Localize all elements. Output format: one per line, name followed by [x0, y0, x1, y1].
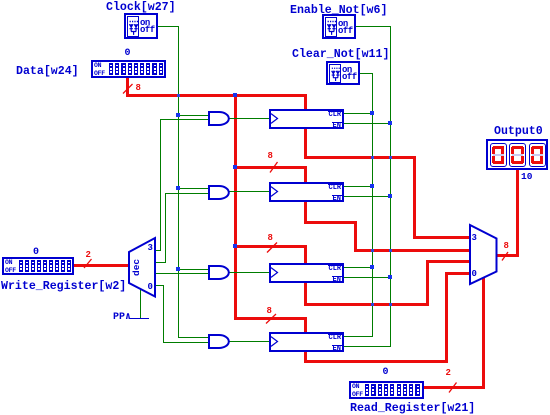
wire clock to gate3: [178, 269, 209, 270]
wire branch to reg2: [234, 166, 307, 169]
digit 3 segments: [532, 146, 543, 149]
wire decoder enable: [140, 289, 141, 318]
wire reg1 Q down: [304, 128, 307, 159]
label width 8 data: [136, 84, 141, 93]
switch Clear_Not[w11]: [326, 61, 360, 85]
digit 2 segments: [512, 146, 523, 149]
wire mux in2: [354, 249, 471, 252]
wire dec out2 vertical: [165, 193, 166, 263]
wire reg4 Q down: [304, 351, 307, 363]
wire mux in0: [445, 272, 471, 275]
junction branch reg2: [233, 165, 237, 169]
label Clock[w27]: [106, 2, 176, 14]
switch Clock[w27]: [124, 13, 158, 39]
wire clock to gate2: [178, 188, 209, 189]
wire write-register to decoder: [74, 264, 130, 267]
wire reg2 Q down2: [354, 221, 357, 252]
wire display feed vertical: [516, 170, 519, 257]
wire reg4 EN stub: [343, 346, 391, 347]
wire reg1 D drop: [304, 97, 307, 110]
label Output0: [494, 126, 543, 138]
junction reg1 EN: [388, 121, 392, 125]
wire dec out0 to gate4: [163, 342, 209, 343]
wire read-register horizontal: [424, 386, 485, 389]
node crossing enable x reg3Q: [389, 303, 392, 306]
wire dec out3 to gate1: [160, 119, 209, 120]
junction clock gate2: [176, 186, 180, 190]
node crossing clear x in2: [371, 249, 374, 252]
wire clock vertical: [178, 26, 179, 338]
label value 0 read: [383, 368, 389, 378]
wire reg3 D drop: [304, 245, 307, 264]
label Data[w24]: [16, 66, 79, 78]
and-gate G1: [208, 111, 230, 126]
node crossing clock x databus: [177, 94, 180, 97]
dip-switch Write_Register[w2]: [2, 257, 74, 275]
wire gate3 output: [229, 272, 269, 273]
label 10: [521, 172, 532, 182]
wire gate2 output: [229, 191, 269, 192]
wire reg2 D drop: [304, 166, 307, 183]
wire reg1 Q down2: [413, 156, 416, 239]
junction reg3 CLR: [370, 265, 374, 269]
bus slash mux out 8: [501, 251, 510, 262]
wire reg3 CLR stub: [343, 267, 373, 268]
wire dec out0 stub: [155, 285, 163, 286]
wire reg4 Q right: [304, 360, 448, 363]
pin label mux 0: [472, 270, 477, 279]
wire reg1 CLR stub: [343, 113, 373, 114]
wire read-register select vertical: [482, 277, 485, 388]
wire reg4 D drop: [304, 317, 307, 333]
wire mux in1: [426, 260, 471, 263]
label value 0 write: [33, 248, 39, 258]
wire dec out3 vertical: [160, 119, 161, 251]
junction data bus top: [233, 93, 237, 97]
wire reg2 EN stub: [343, 196, 391, 197]
node crossing enable x reg1Q: [389, 156, 392, 159]
junction clock gate1: [176, 113, 180, 117]
pin label dec 3: [148, 244, 153, 253]
bus slash branch2 8: [269, 161, 279, 174]
and-gate G2: [208, 185, 230, 200]
wire reg3 Q right: [304, 303, 429, 306]
wire dec out0 vertical: [163, 285, 164, 343]
mux MUX: [469, 224, 498, 285]
node crossing clear x reg3Q: [371, 303, 374, 306]
wire reg2 Q right: [304, 221, 357, 224]
wire gate1 output: [229, 118, 269, 119]
register REG1: [269, 109, 344, 129]
wire reg3 Q down: [304, 281, 307, 306]
register REG4: [269, 332, 344, 352]
junction reg3 EN: [388, 275, 392, 279]
bus slash branch4 8: [265, 313, 277, 325]
wire data bus top horizontal: [126, 94, 307, 97]
wire enable from switch: [355, 26, 391, 27]
label width 8 mux out: [504, 242, 509, 251]
wire clock to gate4: [178, 337, 209, 338]
junction reg2 EN: [388, 194, 392, 198]
register REG3: [269, 263, 344, 283]
wire mux output: [496, 254, 518, 257]
and-gate G3: [208, 265, 230, 280]
wire reg4 Q up: [445, 272, 448, 363]
label width 2 write: [86, 251, 91, 260]
label Clear_Not[w11]: [292, 49, 389, 61]
pin label mux 3: [472, 234, 477, 243]
wire reg4 CLR stub: [343, 336, 373, 337]
wire data-out vertical from Data DIP: [126, 78, 129, 97]
bus slash data 8: [122, 83, 134, 95]
junction clock gate3: [176, 267, 180, 271]
junction reg2 CLR: [370, 184, 374, 188]
junction reg1 CLR: [370, 111, 374, 115]
bus slash write 2: [83, 258, 93, 269]
label Enable_Not[w6]: [290, 5, 387, 17]
display Output0: [486, 139, 548, 170]
label value 0 data: [125, 49, 131, 59]
wire reg1 EN stub: [343, 123, 391, 124]
wire dec out2 stub: [155, 262, 165, 263]
label Write_Register[w2]: [1, 281, 126, 293]
label width 8 branch2: [268, 152, 273, 161]
junction branch reg3: [233, 244, 237, 248]
wire mux in3: [413, 236, 471, 239]
wire dec out3 stub: [155, 250, 161, 251]
label Read_Register[w21]: [350, 403, 475, 415]
wire clear vertical: [372, 73, 373, 337]
label width 2 read: [446, 369, 451, 378]
wire reg2 Q down: [304, 201, 307, 224]
bus slash branch3 8: [266, 242, 278, 254]
wire gate4 output: [229, 341, 269, 342]
wire main data bus vertical: [234, 97, 237, 320]
wire dec out1 to gate3: [155, 273, 209, 274]
wire reg2 CLR stub: [343, 186, 373, 187]
connector PP: [113, 313, 131, 323]
label width 8 branch3: [268, 234, 273, 243]
wire clear from switch: [359, 73, 373, 74]
label width 8 branch4: [267, 307, 272, 316]
switch Enable_Not[w6]: [322, 14, 356, 39]
pin label dec 0: [148, 283, 153, 292]
wire branch to reg3: [234, 245, 307, 248]
node crossing clear x reg1Q: [371, 156, 374, 159]
node crossing enable x in2: [389, 249, 392, 252]
and-gate G4: [208, 334, 230, 349]
wire reg1 Q right: [304, 156, 416, 159]
wire clock from switch: [156, 26, 179, 27]
register REG2: [269, 182, 344, 202]
wire clock to gate1: [178, 115, 209, 116]
wire enable vertical: [390, 26, 391, 347]
wire branch to reg4: [234, 317, 307, 320]
decoder DEC: [128, 237, 157, 298]
digit 1 segments: [493, 146, 504, 149]
dip-switch Data[w24]: [91, 60, 166, 78]
wire dec out2 to gate2: [165, 193, 209, 194]
wire reg3 Q up: [426, 260, 429, 306]
wire reg3 EN stub: [343, 277, 391, 278]
bus slash read 2: [448, 382, 458, 394]
dip-switch Read_Register[w21]: [349, 381, 424, 399]
